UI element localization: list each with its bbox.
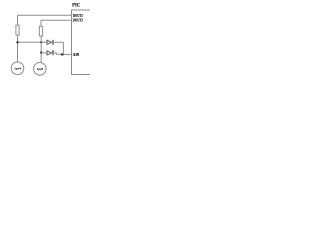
- diode D2: [47, 51, 52, 55]
- wire branch1 down to lamp1: [17, 35, 19, 62]
- junction dot at R1 bottom: [16, 41, 18, 43]
- svg-text:DOUT2: DOUT2: [73, 19, 83, 23]
- svg-text:1pv4: 1pv4: [14, 67, 21, 71]
- svg-text:AIN: AIN: [73, 53, 80, 57]
- diode D1: [47, 40, 52, 44]
- wire branch1 vertical top: [17, 15, 19, 25]
- junction dot at D2 anode: [40, 51, 42, 53]
- wire DOUT2: [41, 19, 72, 21]
- svg-text:1pv6: 1pv6: [36, 67, 43, 71]
- diode D1 cathode bar: [52, 40, 54, 45]
- wire rail node A: [18, 41, 48, 43]
- resistor R1: [16, 25, 19, 35]
- resistor R2: [39, 26, 42, 36]
- PIC box U1: [72, 10, 98, 75]
- wire DOUT1: [18, 14, 72, 16]
- svg-text:DOUT1: DOUT1: [73, 14, 83, 18]
- diode D2 cathode bar: [52, 50, 54, 55]
- diode D2 anode wire: [41, 52, 47, 54]
- wire AIN: [56, 53, 71, 55]
- junction dot on AIN wire: [61, 53, 63, 55]
- junction dot at R2/branch2: [40, 41, 42, 43]
- wire descender to AIN: [62, 42, 64, 56]
- wire branch2 vertical top: [40, 20, 42, 26]
- wire D2 cathode jog: [53, 53, 56, 55]
- svg-text:PIC: PIC: [72, 3, 81, 8]
- wire D1 cathode to descender: [53, 41, 63, 43]
- lamp L2: [34, 63, 47, 76]
- wire branch2 down to lamp2: [40, 36, 42, 63]
- lamp L1: [11, 62, 24, 75]
